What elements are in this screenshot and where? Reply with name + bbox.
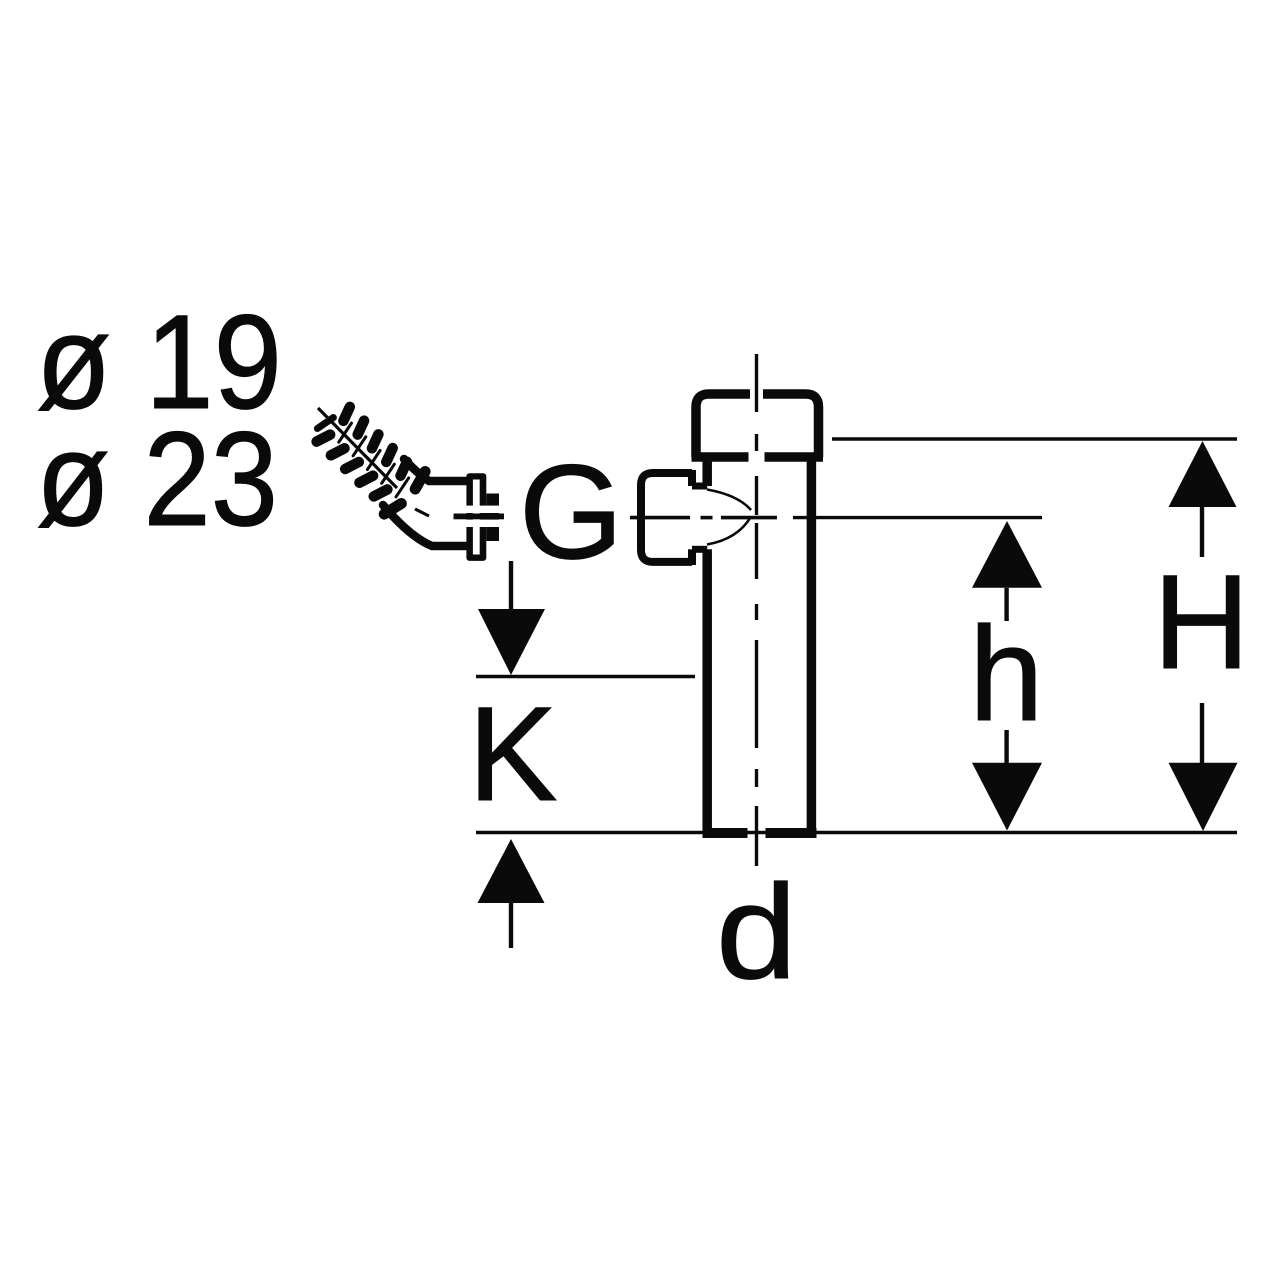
svg-text:K: K (468, 680, 557, 829)
pipe left wall upper segment (702, 457, 712, 486)
inlet top connector (692, 483, 707, 490)
horizontal centerline dash b (721, 516, 777, 520)
bottom reference line (476, 831, 1237, 834)
side inlet right edge bottom (688, 549, 696, 565)
union flange bar 1 inner slit (473, 480, 480, 555)
barb diagonal centerline (318, 408, 397, 488)
horizontal centerline dash a (630, 516, 690, 520)
H down arrow head (1169, 763, 1238, 831)
rib ring 1 (317, 407, 354, 445)
svg-text:ø 23: ø 23 (36, 405, 278, 554)
pipe left wall lower segment (702, 549, 712, 829)
svg-text:G: G (519, 438, 623, 587)
K down arrow head (478, 609, 545, 675)
rib ring 5 (374, 462, 411, 500)
dimension h top reference line (793, 516, 1042, 519)
tip face (317, 415, 333, 431)
rib ring 3 (345, 434, 382, 472)
K middle reference line (476, 675, 695, 678)
elbow inner edge (404, 459, 468, 481)
centerline dash through flange (454, 514, 505, 520)
side inlet right edge top (688, 470, 696, 486)
H down arrow stem (1200, 703, 1204, 763)
K down arrow stem (509, 561, 513, 612)
rib ring 6 collar (384, 471, 428, 517)
rib ring 4 (359, 448, 396, 486)
pipe top socket (hub) outline (692, 394, 824, 457)
flange centerline white gaps (463, 506, 501, 513)
thread flank tick 1 (336, 423, 354, 442)
union flange bar 1 (466, 473, 486, 561)
K up arrow stem (509, 903, 513, 948)
svg-text:d: d (716, 858, 797, 1007)
svg-text:h: h (969, 600, 1044, 749)
hose barb nozzle (45 deg ribbed) (307, 397, 429, 517)
dimension H top reference line (832, 437, 1237, 440)
thread flank tick 4 (379, 464, 397, 483)
side inlet socket outline (641, 473, 692, 562)
inlet bottom connector (692, 546, 707, 553)
pipe right wall (807, 457, 817, 829)
elbow outer edge (383, 505, 468, 546)
rib ring 2 (331, 421, 368, 459)
h up arrow stem (1004, 588, 1008, 621)
spigot bullet lower arc (707, 517, 751, 545)
barb bent centerline dash (415, 509, 429, 516)
h down arrow head (972, 763, 1042, 831)
spigot bullet upper arc (707, 490, 751, 511)
vertical centerline of pipe (755, 354, 758, 866)
union flange bar 2 (486, 494, 499, 542)
h up arrow head (972, 521, 1042, 588)
hub end face line (692, 452, 824, 462)
thread flank tick 5 (393, 478, 411, 497)
H up arrow head (1169, 441, 1237, 507)
H up arrow stem (1200, 507, 1204, 557)
h down arrow stem (1004, 730, 1008, 763)
thread flank tick 3 (364, 451, 382, 470)
horizontal centerline dot (701, 516, 713, 520)
thread flank tick 2 (350, 437, 368, 456)
svg-text:H: H (1153, 548, 1250, 697)
K up arrow head (478, 839, 545, 903)
pipe bottom edge (703, 828, 817, 838)
